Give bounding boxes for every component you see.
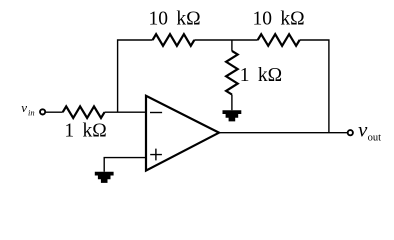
op-amp minus sign	[150, 112, 162, 114]
resistor Rin 1 kOhm body	[63, 106, 105, 118]
ground G2 under noninverting input	[95, 172, 114, 183]
svg-text:out: out	[368, 132, 382, 143]
wire node B stem down	[231, 40, 233, 51]
svg-text:1 kΩ: 1 kΩ	[64, 121, 106, 142]
wire R2 to top-right corner and down to output node	[300, 40, 329, 133]
op-amp plus sign	[150, 149, 162, 161]
svg-text:10 kΩ: 10 kΩ	[148, 9, 200, 30]
wire op-amp output to Vout	[219, 132, 348, 134]
op-amp U1 triangle	[146, 96, 219, 171]
wire Rin to op-amp inverting input	[105, 111, 147, 113]
wire Vin terminal to R_in	[46, 111, 63, 113]
resistor R1 10 kOhm body	[153, 34, 195, 46]
node Vout terminal	[348, 130, 353, 135]
ground G1 under R3	[222, 110, 241, 121]
svg-text:1 kΩ: 1 kΩ	[240, 65, 282, 86]
resistor R2 10 kOhm body	[258, 34, 300, 46]
svg-text:v: v	[21, 100, 27, 115]
svg-text:v: v	[358, 119, 367, 141]
wire R1 to R2 through node B	[194, 39, 257, 41]
wire feedback left vertical and top-left corner to R1	[118, 40, 153, 112]
wire noninverting input to ground drop	[104, 158, 146, 172]
wire R3 to ground	[231, 95, 233, 111]
resistor R3 1 kOhm vertical body	[226, 51, 238, 95]
node Vin terminal	[40, 109, 45, 114]
svg-text:10 kΩ: 10 kΩ	[252, 9, 304, 30]
svg-text:in: in	[28, 108, 35, 118]
